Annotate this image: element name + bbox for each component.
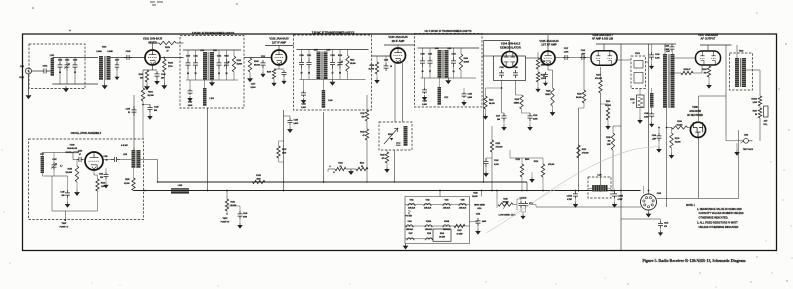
wire bbox=[535, 205, 537, 208]
ground antenna box bbox=[64, 86, 69, 92]
wire bbox=[738, 130, 740, 198]
svg-text:V109: V109 bbox=[70, 145, 76, 147]
svg-text:270,000: 270,000 bbox=[582, 153, 589, 155]
capacitor C109 bbox=[132, 106, 137, 116]
resistor R124 bbox=[536, 72, 539, 82]
V102 cathode network bbox=[278, 65, 280, 69]
svg-text:V108: V108 bbox=[692, 106, 698, 109]
svg-text:R137: R137 bbox=[282, 149, 286, 151]
heater V108 bbox=[425, 238, 433, 240]
wire bbox=[648, 210, 650, 212]
jack P102 bbox=[764, 106, 769, 117]
svg-text:C138: C138 bbox=[665, 46, 669, 48]
svg-text:C150: C150 bbox=[103, 156, 107, 158]
heater V107 bbox=[406, 238, 414, 240]
wire bbox=[189, 80, 191, 89]
svg-text:7.05 MC IF TRANSFORMER ASS'YS: 7.05 MC IF TRANSFORMER ASS'YS bbox=[192, 31, 235, 35]
capacitor C149A bbox=[65, 190, 70, 198]
svg-text:2. ALL FIXED RESISTORS ½ WATT: 2. ALL FIXED RESISTORS ½ WATT bbox=[697, 221, 738, 225]
wire bbox=[522, 112, 531, 114]
svg-text:VOL.: VOL. bbox=[763, 124, 768, 126]
coil L105 on rail bbox=[171, 188, 189, 193]
wire bbox=[105, 168, 107, 172]
wire bbox=[103, 159, 111, 161]
coil L101 bbox=[51, 58, 54, 76]
svg-text:POINT 'B': POINT 'B' bbox=[221, 221, 230, 223]
svg-text:POINT 'A': POINT 'A' bbox=[60, 225, 69, 228]
coil L111 bbox=[41, 156, 44, 173]
capacitor C152 bbox=[111, 157, 120, 162]
svg-text:100,000: 100,000 bbox=[65, 172, 72, 174]
wire to osc transformer bbox=[120, 159, 132, 161]
svg-text:C128: C128 bbox=[513, 67, 517, 69]
svg-text:JAN-6X4W: JAN-6X4W bbox=[689, 110, 702, 113]
wire V107 plate up bbox=[707, 45, 709, 51]
wire bbox=[366, 95, 368, 110]
ground C134 bbox=[657, 147, 661, 152]
wire bbox=[639, 89, 641, 96]
tube V104 demodulator bbox=[502, 52, 518, 68]
svg-text:R143: R143 bbox=[473, 192, 477, 195]
heater feed drops from rail bbox=[439, 191, 441, 197]
heater network enclosure wires bbox=[405, 196, 470, 198]
svg-text:C139: C139 bbox=[655, 54, 659, 56]
wire V102 plate up bbox=[278, 46, 280, 51]
wire bbox=[531, 172, 533, 177]
wire down to rail bbox=[600, 93, 602, 192]
svg-text:R130: R130 bbox=[606, 101, 610, 103]
svg-text:7.05 MC IF TRANSFORMER ASS'YS: 7.05 MC IF TRANSFORMER ASS'YS bbox=[312, 30, 355, 34]
wire bbox=[72, 153, 74, 160]
ground C149A bbox=[65, 202, 69, 207]
wire bbox=[486, 87, 502, 89]
wire bbox=[227, 205, 240, 207]
svg-text:C147: C147 bbox=[52, 158, 56, 161]
svg-text:V103: V103 bbox=[445, 199, 449, 201]
capacitor C107 bbox=[115, 62, 119, 70]
wire bbox=[513, 204, 517, 206]
svg-text:V102: V102 bbox=[426, 199, 430, 201]
ground T142 bottom rail bbox=[330, 80, 335, 86]
wire R101 down bbox=[142, 101, 144, 105]
ground below T140 bbox=[102, 83, 107, 89]
tube V102 1st IF amplifier bbox=[272, 50, 287, 65]
ground C146 bbox=[650, 122, 654, 127]
wire bbox=[537, 52, 539, 58]
power socket J103 bbox=[641, 194, 657, 210]
svg-text:R159: R159 bbox=[370, 65, 374, 67]
wire rectifier cathode down bbox=[698, 138, 700, 198]
capacitor C140 in T141 bbox=[186, 59, 191, 69]
heater V101 bbox=[407, 203, 415, 205]
svg-text:6,800: 6,800 bbox=[294, 123, 299, 125]
capacitor C155 bbox=[476, 218, 481, 226]
resistor R125 bbox=[551, 88, 554, 106]
svg-text:R123: R123 bbox=[534, 161, 538, 163]
choke winding bbox=[592, 185, 608, 192]
svg-text:10 42W: 10 42W bbox=[457, 233, 463, 236]
capacitor C108 bbox=[124, 55, 132, 60]
resistor R101 bbox=[141, 88, 144, 101]
wire choke to rectifier node bbox=[666, 108, 668, 128]
svg-text:470: 470 bbox=[664, 225, 667, 228]
wire bbox=[759, 70, 761, 96]
capacitor C123 in T143 bbox=[451, 57, 456, 67]
svg-text:6,800: 6,800 bbox=[188, 105, 192, 107]
capacitor C144 in T141 bbox=[217, 59, 222, 69]
svg-text:R125: R125 bbox=[546, 91, 550, 93]
svg-text:L102: L102 bbox=[200, 50, 204, 52]
capacitor C154 bbox=[462, 92, 467, 98]
wire box3 to discriminator bbox=[482, 55, 494, 57]
svg-text:R111: R111 bbox=[360, 113, 364, 115]
svg-text:C148: C148 bbox=[154, 106, 158, 109]
wire T142 bottom rail bbox=[300, 79, 366, 81]
wire bbox=[701, 65, 703, 73]
wire heater row 1 bbox=[405, 204, 470, 206]
resistor R137 bbox=[277, 146, 280, 158]
wire bbox=[346, 168, 356, 170]
svg-text:C137: C137 bbox=[564, 48, 568, 50]
capacitor C152 below T142 bbox=[301, 91, 306, 97]
bus B+ upper (AVC line) bbox=[158, 181, 528, 183]
svg-text:V105: V105 bbox=[461, 199, 465, 201]
junction bbox=[323, 181, 325, 183]
svg-text:C149: C149 bbox=[60, 191, 64, 194]
svg-text:C143A: C143A bbox=[567, 194, 573, 197]
svg-text:68,000: 68,000 bbox=[237, 64, 242, 66]
wire R network to bus bbox=[366, 169, 368, 182]
svg-text:1,500: 1,500 bbox=[541, 78, 545, 80]
wire bbox=[530, 204, 536, 206]
wire V103 screen down bbox=[402, 63, 404, 122]
transformer windings L109 bbox=[438, 50, 442, 78]
wire bbox=[548, 69, 553, 71]
resistor R111 bbox=[365, 110, 368, 121]
capacitor C143B bbox=[614, 191, 616, 192]
resistor R112 in T142 bbox=[346, 56, 349, 72]
trimmer C147 bbox=[52, 162, 57, 170]
wire antenna to C101 bbox=[32, 70, 42, 72]
capacitor C153 bbox=[104, 172, 109, 179]
svg-text:V106 JAN-12AT7: V106 JAN-12AT7 bbox=[592, 33, 613, 37]
svg-text:47: 47 bbox=[79, 153, 81, 156]
resistor R113 bbox=[335, 167, 346, 170]
discriminator enclosure bbox=[494, 56, 526, 81]
svg-text:V105 JAN-6AJ5: V105 JAN-6AJ5 bbox=[539, 39, 559, 43]
wire bbox=[639, 108, 641, 119]
capacitor C150 in T142 bbox=[299, 59, 304, 69]
wire feeder to bus bbox=[323, 112, 325, 182]
wire bbox=[517, 198, 521, 200]
svg-text:68,000: 68,000 bbox=[350, 63, 355, 65]
coil L103 below T141 bbox=[203, 88, 207, 106]
svg-text:R112: R112 bbox=[360, 132, 364, 134]
wire R106 to ground bbox=[163, 72, 165, 83]
wire T101 to V107 grid bbox=[675, 57, 697, 59]
svg-text:1ST AF AMP: 1ST AF AMP bbox=[541, 43, 557, 47]
wire box1 to V102 grid bbox=[244, 57, 272, 59]
oscillator assembly dashed enclosure bbox=[29, 139, 144, 220]
svg-text:L113: L113 bbox=[444, 97, 448, 99]
resistor R133 bbox=[707, 66, 710, 77]
svg-text:W101: W101 bbox=[388, 134, 393, 136]
resistor R102 bbox=[159, 41, 176, 44]
wire V101 cathode bbox=[152, 65, 154, 70]
resistor R103 bbox=[145, 70, 148, 82]
svg-text:TEST: TEST bbox=[223, 218, 229, 220]
resistor R122 bbox=[491, 126, 493, 140]
resistor R160 in T143 bbox=[459, 54, 462, 70]
potentiometer R145 bbox=[496, 191, 498, 200]
svg-text:L111: L111 bbox=[40, 153, 44, 155]
svg-text:ADJ.: ADJ. bbox=[477, 207, 482, 210]
wire to test jack bbox=[759, 118, 761, 141]
wire bbox=[438, 78, 440, 87]
svg-text:470,000: 470,000 bbox=[595, 77, 603, 80]
svg-text:V101 JAN-6AJ5: V101 JAN-6AJ5 bbox=[143, 37, 163, 41]
wire feeder right side bbox=[725, 45, 727, 136]
wire bbox=[664, 44, 666, 54]
relay K101 contacts bbox=[634, 61, 643, 69]
capacitor C145 bbox=[238, 211, 243, 219]
ground R116 bbox=[483, 114, 487, 119]
svg-text:2D IF AMP: 2D IF AMP bbox=[392, 39, 405, 43]
svg-text:C126: C126 bbox=[499, 67, 503, 69]
wire bbox=[303, 80, 305, 92]
svg-text:R153: R153 bbox=[68, 169, 72, 171]
svg-text:1MEG: 1MEG bbox=[514, 102, 520, 104]
svg-text:6,800: 6,800 bbox=[301, 107, 305, 109]
svg-text:R115: R115 bbox=[380, 155, 384, 157]
wire bbox=[660, 219, 662, 221]
svg-text:R155: R155 bbox=[125, 179, 129, 181]
svg-text:10W: 10W bbox=[607, 144, 611, 146]
svg-text:150: 150 bbox=[607, 141, 610, 143]
svg-text:TEST: TEST bbox=[62, 223, 68, 225]
tube V103 2nd IF amplifier bbox=[391, 48, 406, 63]
resistor R134A bbox=[758, 96, 761, 106]
svg-text:56: 56 bbox=[755, 114, 757, 116]
wire bbox=[725, 136, 727, 141]
svg-text:HIGH SEND: HIGH SEND bbox=[474, 205, 485, 207]
wire bbox=[651, 88, 653, 93]
wire antenna bottom rail bbox=[52, 83, 98, 85]
svg-text:470: 470 bbox=[381, 157, 384, 160]
wire bbox=[601, 103, 609, 105]
svg-text:56,000: 56,000 bbox=[675, 142, 681, 144]
svg-text:R134A: R134A bbox=[751, 98, 757, 101]
svg-text:1. RESISTANCE VALUE IN OHMS AN: 1. RESISTANCE VALUE IN OHMS AND bbox=[697, 207, 742, 211]
svg-text:R147: R147 bbox=[457, 229, 461, 232]
svg-text:1ST IF AMP: 1ST IF AMP bbox=[272, 40, 287, 44]
ground C107 bbox=[115, 75, 119, 80]
wire V106 to K101 bbox=[615, 59, 631, 61]
heater V106A bbox=[424, 225, 432, 227]
wire bbox=[41, 153, 43, 157]
ground R135 bbox=[669, 153, 673, 158]
wire V106 cathode down bbox=[600, 67, 602, 80]
capacitor C141 in T141 bbox=[193, 59, 198, 69]
svg-text:1MEG: 1MEG bbox=[545, 94, 551, 96]
resistor R122 bbox=[577, 145, 580, 158]
capacitor C121 in T143 bbox=[428, 57, 433, 67]
capacitor C117 bbox=[502, 113, 507, 121]
resistor R115 bbox=[385, 152, 388, 163]
svg-text:AF RECTIFIER: AF RECTIFIER bbox=[687, 114, 703, 117]
svg-text:NOTE 1: NOTE 1 bbox=[686, 204, 695, 207]
wire bbox=[621, 218, 661, 220]
wire bbox=[279, 140, 284, 142]
wire V105 plate to top bbox=[547, 35, 549, 51]
coil L112 in W101 box bbox=[404, 126, 408, 146]
wire bbox=[613, 125, 621, 127]
wire V106 plate up bbox=[603, 44, 605, 51]
wire bbox=[279, 161, 284, 163]
svg-text:L104B: L104B bbox=[107, 50, 113, 53]
svg-text:C150: C150 bbox=[78, 151, 82, 153]
wire bbox=[699, 95, 727, 97]
wire bbox=[226, 191, 228, 200]
ground C112 bbox=[261, 72, 265, 77]
ground R105 bbox=[248, 76, 253, 82]
svg-text:ADJ: ADJ bbox=[764, 120, 768, 123]
wire bbox=[133, 168, 135, 178]
wire bbox=[204, 80, 206, 88]
ground C158 bbox=[422, 95, 426, 100]
wire R129 to rail bbox=[612, 150, 614, 192]
resistor R106 bbox=[163, 59, 166, 72]
ground C145 bbox=[238, 223, 242, 228]
wire bbox=[424, 78, 426, 88]
wire V109 cathode bbox=[93, 170, 95, 175]
svg-text:R129: R129 bbox=[606, 137, 610, 139]
capacitor C144A C144B bbox=[519, 201, 524, 208]
junction bbox=[575, 190, 577, 192]
wire bbox=[608, 187, 612, 189]
svg-text:91,000: 91,000 bbox=[124, 183, 129, 185]
capacitor C112 bbox=[261, 60, 266, 68]
capacitor C105 bbox=[73, 62, 78, 70]
ground R125 bbox=[550, 110, 555, 116]
wire to V109 grid bbox=[83, 159, 85, 161]
wire bbox=[651, 108, 653, 113]
wire bbox=[73, 159, 77, 161]
resistor R147 bbox=[454, 224, 465, 227]
svg-text:R113: R113 bbox=[338, 162, 342, 164]
svg-text:6,800: 6,800 bbox=[644, 117, 648, 119]
IF transformer assembly T143 dashed enclosure bbox=[415, 34, 483, 108]
heater V106B bbox=[442, 225, 450, 227]
svg-text:C142: C142 bbox=[581, 49, 585, 52]
svg-text:68,000: 68,000 bbox=[489, 103, 495, 105]
bus B+ lower (main rail) bbox=[134, 190, 641, 192]
wire T141 top rail bbox=[183, 49, 241, 51]
resistor R136 bbox=[672, 126, 688, 129]
ground C152 bbox=[301, 98, 305, 103]
svg-text:240: 240 bbox=[497, 118, 500, 121]
svg-text:OTHERWISE INDICATED.: OTHERWISE INDICATED. bbox=[699, 216, 729, 220]
T102 windings bbox=[735, 58, 739, 87]
svg-text:61,000: 61,000 bbox=[368, 69, 374, 71]
ground T143 bottom rail bbox=[446, 78, 451, 84]
wire to return bbox=[97, 191, 99, 211]
wire bbox=[510, 157, 543, 159]
ground J102 bbox=[735, 150, 739, 155]
wire bbox=[588, 187, 592, 189]
ground C133 bbox=[544, 81, 548, 86]
wire T102 secondary out bbox=[746, 69, 760, 71]
ground C136 bbox=[658, 231, 662, 236]
ground C143B bbox=[612, 202, 616, 207]
varistor W101 dashed enclosure bbox=[379, 122, 412, 150]
resistor R125A boxed bbox=[637, 95, 645, 108]
capacitor C120 in T143 bbox=[420, 57, 425, 67]
svg-text:L109: L109 bbox=[123, 154, 127, 156]
svg-text:6,000: 6,000 bbox=[494, 164, 499, 166]
wire bbox=[579, 107, 585, 109]
ground C131 bbox=[528, 125, 532, 130]
wire V104 to V105 bbox=[526, 57, 542, 59]
svg-text:6.8 MC: 6.8 MC bbox=[121, 145, 128, 147]
ground C148 bbox=[148, 114, 152, 119]
wire osc tank bottom bbox=[42, 175, 67, 177]
svg-text:V106B: V106B bbox=[444, 221, 450, 223]
svg-text:V102 JAN-6AJ5: V102 JAN-6AJ5 bbox=[269, 37, 289, 41]
svg-text:V106A: V106A bbox=[426, 220, 432, 223]
svg-text:5600: 5600 bbox=[525, 159, 529, 161]
svg-text:V107: V107 bbox=[409, 233, 413, 235]
resistor R137A bbox=[758, 108, 761, 118]
wire bbox=[509, 150, 511, 158]
cathode return wire bbox=[52, 210, 98, 212]
svg-text:56,000: 56,000 bbox=[472, 196, 477, 198]
svg-text:R122: R122 bbox=[582, 149, 586, 151]
junction bbox=[394, 181, 396, 183]
wire bbox=[49, 70, 52, 72]
ground C154 bbox=[462, 100, 466, 105]
svg-text:R103: R103 bbox=[139, 74, 143, 76]
svg-text:56,000: 56,000 bbox=[576, 97, 582, 99]
wire feeder down to rail bbox=[578, 108, 580, 192]
svg-text:V103 JAN-6AJ5: V103 JAN-6AJ5 bbox=[388, 35, 408, 39]
capacitor C158 below T143 bbox=[422, 88, 427, 94]
capacitor C149 bbox=[155, 71, 160, 79]
wire bbox=[94, 174, 98, 176]
wire bbox=[274, 68, 284, 70]
resistor R126 bbox=[582, 90, 585, 103]
wire bbox=[143, 104, 150, 106]
svg-text:R132 47: R132 47 bbox=[684, 68, 691, 71]
wire to R101 bbox=[142, 70, 144, 88]
svg-text:68,000: 68,000 bbox=[464, 62, 469, 64]
svg-text:160: 160 bbox=[140, 77, 143, 79]
wire bbox=[516, 94, 522, 96]
junction bbox=[157, 181, 159, 183]
wire heater row 3 bbox=[405, 238, 433, 240]
ground R131 bbox=[638, 118, 642, 123]
wire jack to ground bbox=[736, 143, 738, 150]
choke L107 windings bbox=[663, 54, 667, 108]
scan crease line bbox=[486, 146, 660, 233]
wire bbox=[366, 140, 368, 169]
svg-text:L106: L106 bbox=[327, 50, 331, 52]
svg-text:500: 500 bbox=[100, 177, 103, 179]
ground C144 bbox=[521, 214, 525, 219]
svg-text:100,000: 100,000 bbox=[502, 201, 508, 203]
ground R159 bbox=[375, 78, 379, 83]
wire bbox=[328, 168, 335, 170]
